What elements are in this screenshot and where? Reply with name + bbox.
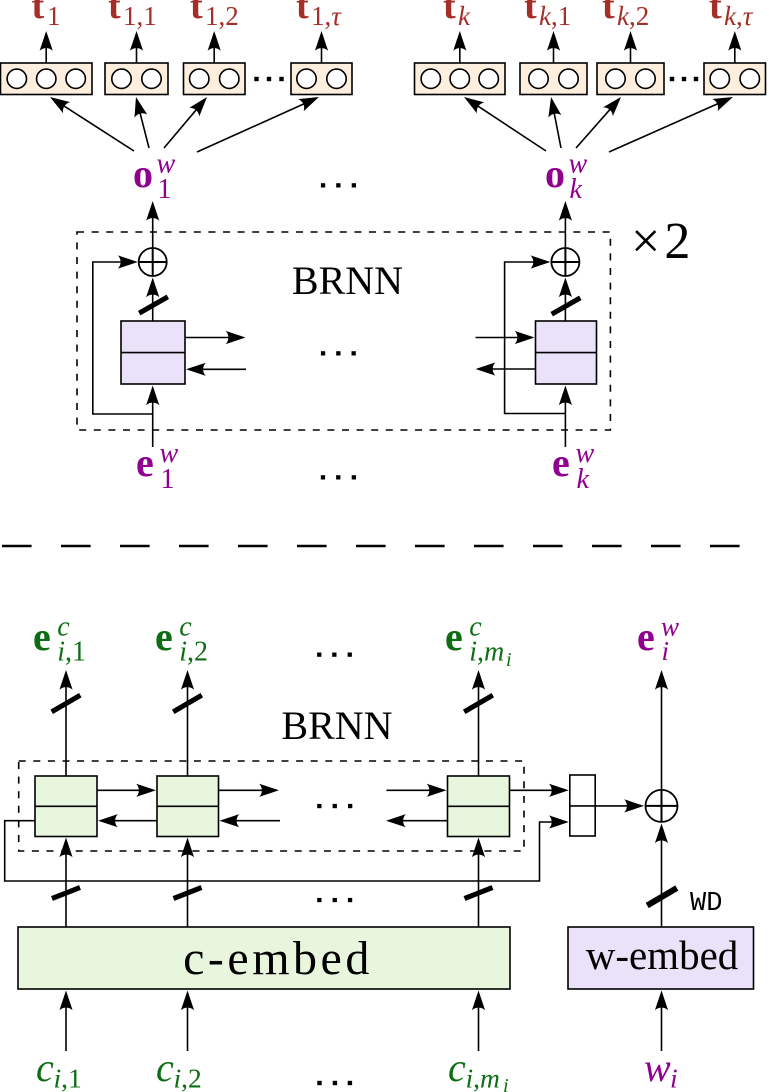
- slash on c-embed output: [465, 888, 493, 899]
- forward input wire (right cell): [476, 337, 530, 339]
- wire from right oplus up to o_k^w: [564, 206, 566, 248]
- svg-text:i,2: i,2: [179, 637, 208, 668]
- label t_k,1: [524, 0, 571, 31]
- svg-text:k,τ: k,τ: [724, 1, 754, 31]
- dots between char inputs: [317, 1081, 321, 1085]
- label t_1,2: [190, 0, 239, 31]
- forward output wire cell3 to concat: [510, 789, 564, 791]
- svg-text:t: t: [709, 0, 722, 27]
- svg-text:o: o: [545, 151, 565, 196]
- char RNN cell 2: [157, 776, 219, 837]
- RNN cell (right, word level): [536, 321, 597, 384]
- forward wire cell1 to cell2: [97, 789, 151, 791]
- concatenation box: [570, 775, 595, 836]
- svg-text:k: k: [570, 174, 583, 205]
- svg-text:c: c: [156, 1045, 174, 1090]
- softmax output box t1,tau outputs: [291, 63, 352, 95]
- svg-text:i,m: i,m: [466, 1063, 500, 1092]
- label node e_k^w: [552, 438, 595, 495]
- wire e_k^w into cell: [564, 391, 566, 448]
- fan wires from node o_k^w to output boxes: [468, 99, 728, 152]
- label t_1: [32, 0, 61, 31]
- wire input char/word into embed box: [187, 996, 189, 1052]
- wire arrow from box t1,tau outputs to label: [321, 36, 323, 63]
- softmax output box tk,tau outputs: [704, 63, 766, 95]
- char RNN cell m_i: [448, 776, 510, 837]
- svg-text:1: 1: [158, 174, 172, 205]
- label node e^c_i,1: [33, 611, 86, 667]
- wire arrow from box t1 outputs to label: [45, 36, 47, 63]
- svg-text:c: c: [448, 1045, 466, 1090]
- dots inside bottom BRNN: [317, 804, 321, 808]
- svg-text:k,2: k,2: [617, 1, 649, 31]
- svg-text:k: k: [458, 1, 471, 31]
- slash on c-embed output: [52, 888, 80, 899]
- label node o_1^w: [133, 149, 176, 206]
- svg-text:i: i: [506, 649, 512, 671]
- svg-text:i: i: [670, 1063, 678, 1092]
- svg-text:t: t: [190, 0, 203, 27]
- softmax output box t1,2 outputs: [184, 63, 246, 95]
- backward wire cell3 to dots: [391, 820, 448, 822]
- svg-text:c: c: [36, 1045, 54, 1090]
- dashed BRNN box (word level): [77, 232, 610, 430]
- svg-text:i,m: i,m: [469, 637, 504, 668]
- svg-text:w: w: [644, 1045, 671, 1090]
- svg-text:×2: ×2: [631, 213, 694, 270]
- bypass wire to left oplus: [93, 262, 153, 414]
- svg-text:BRNN: BRNN: [292, 258, 403, 303]
- forward wire cell2 to dots: [219, 789, 275, 791]
- svg-text:t: t: [443, 0, 456, 27]
- svg-text:e: e: [33, 614, 51, 659]
- label input c_i,m_i: [448, 1045, 509, 1092]
- dots between output boxes: [254, 77, 258, 81]
- dots between c-embed output wires: [317, 898, 321, 902]
- label t_1,tau: [296, 0, 342, 31]
- softmax output box tk,2 outputs: [597, 63, 664, 95]
- wire c-embed output into cell: [187, 843, 189, 928]
- label t_1,1: [108, 0, 157, 31]
- svg-text:i: i: [662, 636, 670, 666]
- label input c_i,2: [156, 1045, 202, 1092]
- bypass wire to right oplus: [505, 262, 566, 414]
- wire e_1^w into cell: [152, 391, 154, 448]
- wire input char/word into embed box: [661, 996, 663, 1052]
- wire cell to oplus with dimension slash: [152, 283, 154, 322]
- char RNN cell 1: [35, 776, 97, 837]
- label t_k: [443, 0, 471, 31]
- softmax output box t1,1 outputs: [105, 63, 168, 95]
- dots between o nodes: [321, 183, 325, 187]
- svg-text:e: e: [445, 614, 463, 659]
- forward wire dots to cell3: [387, 789, 442, 791]
- slash (right cell output): [552, 298, 581, 314]
- svg-text:t: t: [296, 0, 309, 27]
- label input c_i,1: [36, 1045, 82, 1092]
- svg-text:t: t: [32, 0, 45, 27]
- wire arrow from box tk outputs to label: [459, 36, 461, 63]
- svg-text:e: e: [637, 614, 655, 659]
- wire cell output up to e^c label: [187, 675, 189, 776]
- svg-text:BRNN: BRNN: [281, 703, 392, 748]
- dots between e^c labels: [317, 653, 321, 657]
- label t_k,2: [602, 0, 649, 31]
- forward output wire (left cell): [185, 337, 241, 339]
- svg-text:k,1: k,1: [539, 1, 571, 31]
- wire input char/word into embed box: [478, 996, 480, 1052]
- dashed BRNN box (char level): [19, 761, 524, 851]
- slash on cell output: [464, 695, 493, 712]
- label node e^c_i,2: [155, 611, 208, 667]
- wire arrow from box tk,2 outputs to label: [630, 36, 632, 63]
- oplus U3 (char+word combine): [646, 790, 678, 822]
- svg-text:i: i: [503, 1075, 509, 1092]
- RNN cell (left, word level): [121, 321, 185, 384]
- wire c-embed output into cell: [65, 843, 67, 928]
- wire arrow from box t1,2 outputs to label: [213, 36, 215, 63]
- fan wires from node o_1^w to output boxes: [54, 99, 314, 152]
- slash (left cell output): [139, 297, 168, 313]
- slash on cell output: [173, 695, 202, 712]
- wire oplus up to e_i^w label: [661, 675, 663, 790]
- slash on c-embed output: [174, 888, 202, 899]
- svg-text:i,2: i,2: [174, 1063, 202, 1092]
- svg-text:e: e: [155, 614, 173, 659]
- svg-text:i,1: i,1: [57, 637, 86, 668]
- wire from left oplus up to o_1^w: [152, 206, 154, 248]
- backward output wire (right cell): [481, 368, 536, 370]
- wire arrow from box tk,1 outputs to label: [553, 36, 555, 63]
- wire w-embed to oplus with WD slash: [661, 828, 663, 927]
- svg-text:1: 1: [47, 1, 61, 31]
- svg-text:t: t: [602, 0, 615, 27]
- wire concat to oplus: [595, 805, 639, 807]
- backward input wire (left cell): [191, 368, 246, 370]
- backward wire dots to cell2: [225, 820, 281, 822]
- slash on cell output: [52, 695, 81, 712]
- dots between e_1^w and e_k^w: [321, 475, 325, 479]
- svg-text:o: o: [133, 151, 153, 196]
- svg-text:t: t: [524, 0, 537, 27]
- c-embed box: [18, 927, 510, 989]
- label node e^c_i,m_i: [445, 611, 512, 671]
- wire cell to right oplus: [564, 283, 566, 322]
- svg-text:1,1: 1,1: [123, 1, 157, 31]
- svg-text:e: e: [552, 440, 570, 485]
- wire c-embed output into cell: [478, 843, 480, 928]
- softmax output box tk outputs: [415, 63, 506, 95]
- backward state bypass wire around to concat: [5, 821, 564, 881]
- softmax output box t1 outputs: [1, 63, 93, 95]
- label node e_1^w: [136, 438, 179, 495]
- wire arrow from box t1,1 outputs to label: [136, 36, 138, 63]
- label node e_i^w: [637, 611, 679, 666]
- svg-text:e: e: [136, 440, 154, 485]
- svg-text:k: k: [577, 464, 590, 495]
- svg-text:w-embed: w-embed: [586, 932, 739, 978]
- wire cell output up to e^c label: [65, 675, 67, 776]
- label node o_k^w: [545, 149, 588, 206]
- wire input char/word into embed box: [65, 996, 67, 1052]
- svg-text:1,τ: 1,τ: [311, 1, 342, 31]
- label t_k,tau: [709, 0, 754, 31]
- wire cell output up to e^c label: [478, 675, 480, 776]
- dots between output boxes: [670, 77, 674, 81]
- svg-text:WD: WD: [690, 889, 722, 919]
- slash WD: [647, 888, 677, 906]
- label input w_i: [644, 1045, 678, 1092]
- dashed separator line: [2, 545, 741, 547]
- svg-text:t: t: [108, 0, 121, 27]
- softmax output box tk,1 outputs: [520, 63, 587, 95]
- oplus U1 (left): [139, 248, 167, 276]
- backward wire cell2 to cell1: [103, 820, 157, 822]
- svg-text:1: 1: [161, 464, 175, 495]
- wire arrow from box tk,tau outputs to label: [734, 36, 736, 63]
- svg-text:i,1: i,1: [54, 1063, 82, 1092]
- svg-text:1,2: 1,2: [205, 1, 239, 31]
- svg-text:c-embed: c-embed: [183, 932, 373, 985]
- w-embed box: [568, 927, 754, 989]
- dots inside top BRNN: [321, 351, 325, 355]
- oplus U2 (right): [551, 248, 579, 276]
